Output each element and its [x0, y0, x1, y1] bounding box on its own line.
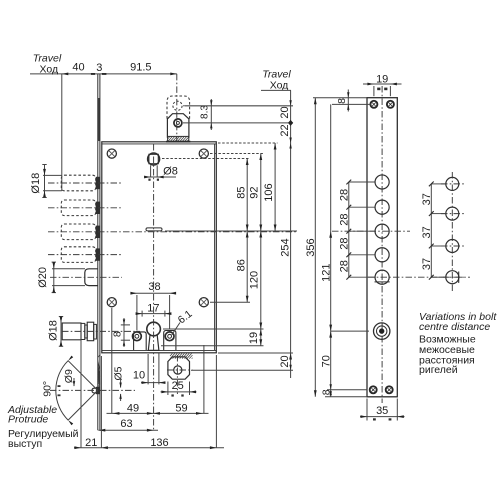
- svg-text:8: 8: [336, 98, 348, 104]
- svg-text:37: 37: [421, 258, 433, 270]
- svg-text:Ø20: Ø20: [37, 267, 49, 288]
- svg-text:Ø5: Ø5: [113, 366, 125, 380]
- svg-text:37: 37: [421, 193, 433, 205]
- svg-text:10: 10: [133, 369, 145, 381]
- svg-text:3: 3: [96, 62, 102, 74]
- svg-text:25: 25: [172, 380, 184, 392]
- svg-text:356: 356: [305, 238, 317, 256]
- svg-text:Ø8: Ø8: [163, 166, 178, 178]
- svg-text:37: 37: [421, 226, 433, 238]
- svg-text:centre distance: centre distance: [419, 321, 490, 333]
- svg-text:28: 28: [338, 189, 350, 201]
- svg-text:28: 28: [338, 260, 350, 272]
- svg-text:92: 92: [248, 186, 260, 198]
- svg-text:28: 28: [338, 237, 350, 249]
- svg-text:22: 22: [279, 124, 291, 136]
- svg-text:Ø18: Ø18: [48, 320, 60, 341]
- svg-text:Ход: Ход: [39, 63, 58, 75]
- svg-text:38: 38: [148, 281, 160, 293]
- svg-text:Ход: Ход: [270, 79, 289, 91]
- svg-text:выступ: выступ: [8, 438, 42, 450]
- svg-text:254: 254: [280, 238, 292, 256]
- svg-text:121: 121: [320, 264, 332, 282]
- svg-text:20: 20: [279, 355, 291, 367]
- svg-text:8.3: 8.3: [200, 105, 211, 119]
- svg-text:Ø9: Ø9: [63, 369, 75, 383]
- svg-text:20: 20: [279, 106, 291, 118]
- svg-text:21: 21: [85, 437, 97, 449]
- svg-text:106: 106: [263, 183, 275, 201]
- svg-text:86: 86: [235, 259, 247, 271]
- svg-text:28: 28: [338, 213, 350, 225]
- svg-text:40: 40: [72, 61, 84, 73]
- svg-text:90°: 90°: [41, 381, 53, 397]
- svg-text:120: 120: [248, 271, 260, 289]
- svg-text:19: 19: [376, 73, 388, 85]
- svg-text:91.5: 91.5: [130, 61, 151, 73]
- svg-text:59: 59: [175, 403, 187, 415]
- svg-text:63: 63: [120, 418, 132, 430]
- svg-text:Protrude: Protrude: [8, 414, 48, 426]
- svg-text:35: 35: [376, 405, 388, 417]
- svg-text:Ø18: Ø18: [30, 173, 42, 194]
- svg-text:19: 19: [248, 332, 260, 344]
- svg-text:ригелей: ригелей: [419, 364, 458, 376]
- svg-text:8: 8: [112, 331, 124, 337]
- svg-text:85: 85: [235, 186, 247, 198]
- svg-text:49: 49: [127, 403, 139, 415]
- svg-text:70: 70: [320, 355, 332, 367]
- svg-text:136: 136: [150, 437, 168, 449]
